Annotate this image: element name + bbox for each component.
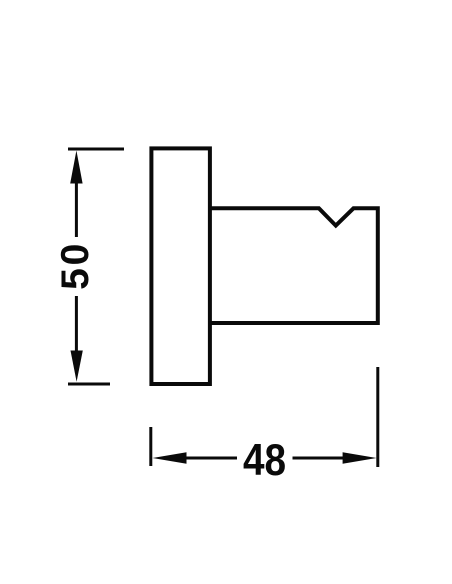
- svg-text:48: 48: [243, 435, 286, 485]
- svg-text:50: 50: [54, 241, 97, 290]
